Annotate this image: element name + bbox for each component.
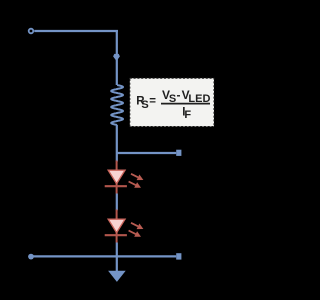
resistor RS (coil) <box>111 85 123 125</box>
svg-text:F: F <box>184 109 191 121</box>
current return arrow (large, down) <box>108 271 126 282</box>
wire resistor to mid junction <box>116 125 118 162</box>
LED D2 emission arrow 2 <box>129 231 141 237</box>
LED D2 emission arrow 1 <box>131 223 143 229</box>
svg-text:S: S <box>141 99 148 111</box>
wire bottom node to return arrow <box>116 256 118 271</box>
svg-text:-: - <box>177 88 181 102</box>
formula label RS = <box>136 96 156 111</box>
wire bottom horizontal rail <box>31 255 176 257</box>
current direction arrow (down) <box>113 54 120 61</box>
LED D1 <box>105 161 144 194</box>
terminal T1 (open circle, supply +) <box>29 29 34 34</box>
formula denominator IF <box>182 107 191 122</box>
LED D1 anode/cathode lead <box>116 161 118 194</box>
terminal bottom-right (square) <box>176 253 181 259</box>
svg-text:=: = <box>149 96 156 108</box>
formula box (dashed border) <box>130 78 214 126</box>
terminal mid-right (square) <box>176 150 181 156</box>
wire top horizontal <box>34 30 118 32</box>
wire top vertical (to resistor) <box>116 30 118 85</box>
terminal bottom-left (filled dot, return) <box>28 254 34 260</box>
formula fraction bar <box>161 103 210 105</box>
LED D1 emission arrow 1 <box>131 174 143 180</box>
wire mid horizontal branch <box>117 152 176 154</box>
LED D1 emission arrow 2 <box>129 182 141 188</box>
wire LED D1 to LED D2 <box>116 194 118 211</box>
LED D1 cathode bar <box>105 185 127 187</box>
LED D1 triangle <box>108 170 125 184</box>
formula numerator VS - VLED <box>162 88 210 105</box>
LED D2 <box>105 210 144 243</box>
LED D2 cathode bar <box>105 234 127 236</box>
LED D2 triangle <box>108 219 125 233</box>
LED D2 anode/cathode lead <box>116 210 118 243</box>
wire LED D2 to bottom node <box>116 243 118 257</box>
